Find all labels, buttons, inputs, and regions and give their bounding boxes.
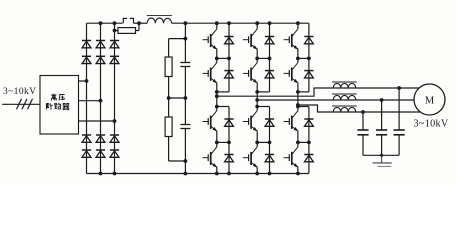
breaker label glyph 器 — [63, 103, 69, 109]
diode D20 — [265, 155, 274, 162]
wire diode column 1 upper — [217, 23, 229, 92]
diode D10 — [110, 56, 119, 63]
transistor V6 (IGBT) — [243, 63, 258, 84]
junction node2 phase 3 — [296, 141, 300, 145]
breaker label glyph 高 — [51, 94, 56, 101]
diode D7 — [96, 135, 105, 142]
breaker label glyph 路 — [55, 103, 61, 109]
wire diode column 2 upper — [257, 23, 269, 92]
wire node2 link phase 2 — [257, 141, 269, 143]
diode D23 — [304, 119, 313, 126]
motor letter M — [425, 95, 435, 106]
diode D21 — [304, 37, 313, 44]
ground (earth) — [373, 155, 392, 166]
wire phase 3 V-link upper — [297, 50, 299, 63]
junction diode col 2 bottom bus — [268, 172, 272, 176]
diode D17 — [265, 37, 274, 44]
wire top bus (contactor to choke) — [134, 22, 148, 24]
junction node1 link diode col 3 — [307, 57, 311, 61]
diode D1 — [82, 41, 91, 48]
transistor V8 (IGBT) — [243, 147, 258, 168]
inductor L4 (output reactor W) — [332, 106, 357, 112]
junction phase V output — [255, 98, 259, 102]
junction phase B / column 2 — [99, 99, 103, 103]
junction phase U output — [215, 94, 219, 98]
transistor V3 (IGBT) — [203, 111, 218, 132]
breaker label glyph 断 — [46, 103, 52, 109]
wire node1 link phase 3 — [298, 57, 309, 59]
junction jog bottom phase 3 — [296, 105, 300, 109]
junction phase 1 top bus — [215, 21, 219, 25]
transistor V9 (IGBT) — [284, 29, 299, 50]
resistor R3 (lower balancing) — [165, 117, 172, 137]
transistor V5 (IGBT) — [243, 29, 258, 50]
junction phase C / column 3 — [113, 119, 117, 123]
wire diode column 2 lower — [257, 107, 269, 174]
diode D13 — [224, 37, 233, 44]
junction node1 link diode col 1 — [227, 57, 231, 61]
wire phase 2 mid column — [256, 83, 258, 111]
junction phase W output — [296, 103, 300, 107]
diode D19 — [265, 119, 274, 126]
inductor L2 (output reactor U) — [332, 82, 357, 88]
junction node2 phase 1 — [215, 141, 219, 145]
junction node2 link diode col 2 — [268, 141, 272, 145]
inductor L3 (output reactor V) — [332, 94, 357, 100]
wire phase 2 V-link upper — [256, 50, 258, 63]
capacitor C2 (lower) — [180, 125, 190, 129]
junction bottom bus / column 3 — [113, 172, 117, 176]
three-phase slash marks — [17, 99, 33, 110]
junction node1 phase 3 — [296, 57, 300, 61]
junction phase 3 top bus — [296, 21, 300, 25]
capacitor C1 (upper) — [180, 63, 190, 67]
wire RC top tee — [169, 38, 186, 40]
transistor V12 (IGBT) — [284, 147, 299, 168]
wire phase 1 V-link lower — [216, 131, 218, 147]
wire phase 1 upper collector — [216, 23, 218, 29]
wire upper capacitor lower lead — [184, 67, 186, 99]
wire top DC+ bus (rectifier side) — [87, 22, 123, 24]
wire phase 2 V-link lower — [256, 131, 258, 147]
diode D24 — [304, 155, 313, 162]
wire RC tail to bottom bus — [184, 161, 186, 174]
wire rectifier column 1 — [86, 23, 88, 173]
diode D14 — [224, 71, 233, 78]
wire phase W output — [298, 105, 420, 112]
resistor R2 (upper balancing) — [165, 57, 172, 77]
wire diode column 3 lower — [298, 107, 309, 174]
wire phase 3 lower emitter — [297, 168, 299, 174]
diode D9 — [110, 41, 119, 48]
wire RC bottom tee — [169, 160, 186, 162]
svg-text:3~10kV: 3~10kV — [414, 119, 449, 130]
diode D11 — [110, 135, 119, 142]
wire diode column 3 upper — [298, 23, 309, 92]
diode D4 — [82, 150, 91, 157]
wire diode column 1 lower — [217, 107, 229, 174]
junction RC branch / top bus — [184, 21, 188, 25]
diode D22 — [304, 71, 313, 78]
junction diode col 1 bottom bus — [227, 172, 231, 176]
junction jog top phase 2 — [255, 90, 259, 94]
junction midpoint right — [184, 96, 188, 100]
diode D5 — [96, 41, 105, 48]
inductor L1 (DC link choke) — [147, 15, 172, 23]
junction diode col 2 top bus — [268, 21, 272, 25]
junction phase A / column 1 — [85, 79, 89, 83]
junction cap tap W — [361, 110, 365, 114]
wire upper resistor lead — [168, 39, 170, 57]
junction cap tap U — [397, 86, 401, 90]
junction phase 3 bottom bus — [296, 172, 300, 176]
breaker label glyph 压 — [59, 95, 65, 101]
junction phase 2 bottom bus — [255, 172, 259, 176]
diode D18 — [265, 71, 274, 78]
junction R1 tap on column 3 — [113, 29, 117, 33]
transistor V2 (IGBT) — [203, 63, 218, 84]
junction phase 2 top bus — [255, 21, 259, 25]
wire node2 link phase 1 — [217, 141, 229, 143]
wire top bus (choke to inverter) — [172, 22, 309, 24]
wire lower capacitor lower lead — [184, 129, 186, 162]
wire lower resistor lead — [168, 98, 170, 117]
svg-text:3~10kV: 3~10kV — [3, 86, 36, 97]
junction top bus / column 2 — [99, 21, 103, 25]
net label 3~10kV (motor) — [414, 119, 449, 130]
junction top bus / column 3 — [113, 21, 117, 25]
junction node2 link diode col 3 — [307, 141, 311, 145]
motor M (circle) — [414, 84, 445, 115]
wire node2 link phase 3 — [298, 141, 309, 143]
wire phase 3 mid column — [297, 83, 299, 111]
wire RC midpoint link — [169, 97, 186, 99]
junction midpoint left — [167, 96, 171, 100]
net label 3~10kV (input) — [3, 86, 36, 97]
transistor V10 (IGBT) — [284, 63, 299, 84]
junction RC tee — [184, 37, 188, 41]
wire upper resistor lower lead — [168, 77, 170, 99]
diode D3 — [82, 135, 91, 142]
wire upper capacitor lead — [184, 39, 186, 63]
wire lower capacitor lead — [184, 98, 186, 125]
diode D8 — [96, 150, 105, 157]
junction jog bottom phase 1 — [215, 105, 219, 109]
wire phase 3 upper collector — [297, 23, 299, 29]
diode D2 — [82, 56, 91, 63]
wire phase 1 V-link upper — [216, 50, 218, 63]
junction node1 phase 1 — [215, 57, 219, 61]
junction jog top phase 3 — [296, 90, 300, 94]
wire phase 2 upper collector — [256, 23, 258, 29]
junction RC bottom tee — [184, 159, 188, 163]
junction capacitor common — [380, 154, 383, 157]
wire phase 3 V-link lower — [297, 131, 299, 147]
junction node2 link diode col 1 — [227, 141, 231, 145]
wire phase V output — [257, 99, 414, 101]
diode D15 — [224, 119, 233, 126]
wire rectifier column 3 — [114, 23, 116, 173]
transistor V11 (IGBT) — [284, 111, 299, 132]
wire phase 1 mid column — [216, 83, 218, 111]
wire node1 link phase 2 — [257, 57, 269, 59]
capacitor C4 (filter V) — [376, 100, 387, 155]
capacitor C3 (filter U) — [394, 88, 405, 155]
wire bottom DC- bus — [87, 173, 309, 175]
junction node2 phase 2 — [255, 141, 259, 145]
junction diode col 1 top bus — [227, 21, 231, 25]
wire rectifier column 2 — [100, 23, 102, 173]
resistor R1 (precharge) — [115, 23, 140, 33]
junction node1 link diode col 2 — [268, 57, 272, 61]
wire phase A stub — [79, 80, 87, 82]
transistor V1 (IGBT) — [203, 29, 218, 50]
diode D6 — [96, 56, 105, 63]
junction resistor riser / top bus — [137, 21, 141, 25]
wire phase B stub — [79, 100, 101, 102]
junction bottom bus / column 2 — [99, 172, 103, 176]
wire phase 2 lower emitter — [256, 168, 258, 174]
wire capacitor common — [363, 154, 399, 156]
capacitor C5 (filter W) — [357, 112, 368, 155]
junction jog bottom phase 2 — [255, 105, 259, 109]
HV circuit breaker box QF — [40, 76, 79, 135]
transistor V7 (IGBT) — [243, 111, 258, 132]
wire phase U output — [217, 88, 419, 96]
contactor KM (precharge bypass) — [123, 18, 133, 23]
junction jog top phase 1 — [215, 90, 219, 94]
diode D16 — [224, 155, 233, 162]
svg-text:M: M — [425, 95, 435, 106]
diode D12 — [110, 150, 119, 157]
transistor V4 (IGBT) — [203, 147, 218, 168]
junction node1 phase 2 — [255, 57, 259, 61]
wire phase 1 lower emitter — [216, 168, 218, 174]
wire input feeder — [2, 103, 40, 105]
junction phase 1 bottom bus — [215, 172, 219, 176]
junction RC tail / bottom bus — [184, 172, 188, 176]
wire lower resistor lower lead — [168, 137, 170, 162]
wire node1 link phase 1 — [217, 57, 229, 59]
wire RC riser — [184, 23, 186, 38]
junction cap tap V — [380, 98, 384, 102]
wire phase C stub — [79, 120, 115, 122]
